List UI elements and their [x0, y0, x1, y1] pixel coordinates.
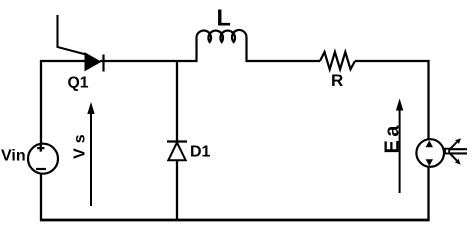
Q1 cathode bar	[102, 55, 104, 72]
resistor R	[320, 52, 355, 69]
voltage source Vin	[28, 144, 58, 174]
wire left rail lower	[40, 173, 42, 221]
diode D1	[167, 142, 187, 161]
D1 triangle	[168, 143, 185, 161]
motor variability arrow upper	[450, 138, 461, 149]
svg-text:Vin: Vin	[1, 148, 26, 165]
svg-text:R: R	[331, 71, 343, 90]
svg-text:D1: D1	[190, 143, 211, 160]
svg-text:Vs: Vs	[72, 129, 89, 159]
Ea arrow	[396, 99, 403, 194]
wire top (inductor to resistor)	[246, 60, 321, 62]
Q1 gate lead	[58, 15, 87, 55]
Vs arrow	[87, 102, 94, 206]
Vin minus sign	[36, 168, 46, 170]
wire top middle (Q1 to inductor)	[100, 60, 198, 62]
D1 cathode bar	[167, 140, 187, 142]
Q1 arrow triangle	[85, 53, 101, 71]
node junction D1 top	[176, 61, 178, 141]
motor inner bottom arrow	[426, 159, 433, 166]
inductor L	[197, 30, 247, 62]
wire right rail lower	[427, 167, 429, 222]
svg-text:Ea: Ea	[381, 122, 403, 153]
svg-text:Q1: Q1	[68, 75, 89, 92]
transistor Q1	[58, 15, 104, 72]
motor terminal line lower	[449, 152, 467, 154]
wire top-right (resistor to right rail)	[355, 60, 430, 62]
motor inner top arrow	[426, 140, 433, 147]
motor terminal line upper	[449, 148, 467, 150]
wire bottom rail	[40, 219, 430, 222]
wire left rail upper	[40, 60, 42, 145]
motor / back-emf source M (circle)	[416, 139, 444, 167]
wire right rail upper	[427, 60, 429, 140]
Vin plus sign	[37, 145, 44, 152]
motor side box	[445, 149, 449, 154]
svg-text:L: L	[217, 5, 231, 31]
motor variability arrow lower	[450, 154, 461, 165]
wire D1 anode to bottom rail	[176, 160, 178, 221]
wire top-left horizontal (Vin top to Q1 anode)	[40, 60, 86, 62]
